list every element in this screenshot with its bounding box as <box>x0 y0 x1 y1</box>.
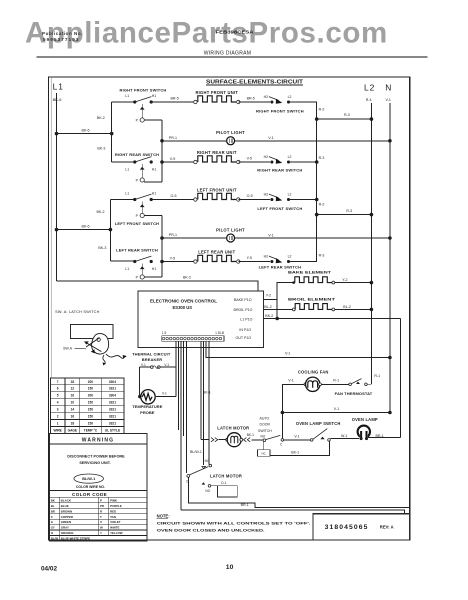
svg-text:N: N <box>385 83 391 93</box>
svg-text:14: 14 <box>71 408 75 412</box>
svg-text:BK-2: BK-2 <box>183 275 191 279</box>
wire latch C down and BR-1 out <box>188 477 409 507</box>
svg-text:VIOLET: VIOLET <box>110 520 121 524</box>
svg-text:DISCONNECT POWER BEFORE: DISCONNECT POWER BEFORE <box>67 454 125 458</box>
svg-text:AUTO: AUTO <box>260 416 270 420</box>
color code table <box>50 490 148 492</box>
svg-text:FAN THERMOSTAT: FAN THERMOSTAT <box>335 391 373 396</box>
latch switch curly lead <box>106 354 124 358</box>
svg-text:PURPLE: PURPLE <box>110 504 122 508</box>
svg-text:10: 10 <box>226 564 234 571</box>
svg-text:4: 4 <box>57 401 59 405</box>
svg-text:RIGHT FRONT UNIT: RIGHT FRONT UNIT <box>195 90 238 95</box>
wire strip drop 6 (NC lead) <box>202 341 204 465</box>
wire strip drop 7 (V-1 to N) <box>206 341 390 357</box>
svg-text:16: 16 <box>71 415 75 419</box>
svg-text:O-5: O-5 <box>247 194 253 198</box>
svg-text:1: 1 <box>57 421 59 425</box>
svg-text:PILOT LIGHT: PILOT LIGHT <box>216 227 245 232</box>
svg-text:V-1: V-1 <box>386 98 391 102</box>
temperature probe <box>138 395 142 399</box>
svg-text:BK-6: BK-6 <box>82 224 90 228</box>
svg-text:SW.A: SW.A <box>63 347 73 351</box>
svg-text:W: W <box>100 526 103 530</box>
svg-text:NO: NO <box>205 489 210 493</box>
wire bus right-switch column <box>111 102 113 162</box>
svg-text:T: T <box>100 515 102 519</box>
svg-text:THERMAL CIRCUIT: THERMAL CIRCUIT <box>132 351 171 356</box>
svg-text:5: 5 <box>57 394 59 398</box>
svg-text:BK-1: BK-1 <box>247 433 254 437</box>
svg-text:LEFT FRONT UNIT: LEFT FRONT UNIT <box>197 188 237 193</box>
svg-text:GREEN: GREEN <box>61 520 71 524</box>
svg-text:BREAKER: BREAKER <box>142 357 162 362</box>
svg-text:RIGHT REAR SWITCH: RIGHT REAR SWITCH <box>115 152 159 157</box>
wire vertical to L1 P1O wire <box>276 299 278 318</box>
wire strip drop 3b <box>178 341 180 430</box>
svg-text:R-3: R-3 <box>344 113 350 117</box>
wire unit to switch2 <box>238 261 270 263</box>
svg-text:REV: A: REV: A <box>380 524 394 529</box>
svg-text:L1: L1 <box>125 168 129 172</box>
svg-text:04/02: 04/02 <box>41 565 57 572</box>
svg-text:L2: L2 <box>288 255 292 259</box>
svg-text:3321: 3321 <box>109 401 116 405</box>
wire bus left-switch column <box>109 200 111 262</box>
svg-text:200: 200 <box>88 394 94 398</box>
svg-text:V-1: V-1 <box>285 352 290 356</box>
svg-text:R-3: R-3 <box>319 254 325 258</box>
wire strip drop 5 (BK-1 to latch motor) <box>200 341 202 439</box>
svg-text:TAN: TAN <box>110 515 116 519</box>
svg-text:YELLOW: YELLOW <box>110 531 123 535</box>
wire strip drop 3 <box>183 341 185 436</box>
svg-text:COPPER: COPPER <box>61 515 74 519</box>
svg-text:WHITE: WHITE <box>110 526 119 530</box>
svg-text:Y-2: Y-2 <box>266 294 271 298</box>
wire unit to switch2 <box>238 199 270 201</box>
part number box <box>313 514 409 540</box>
svg-text:SERVICING UNIT.: SERVICING UNIT. <box>79 461 110 465</box>
electronic oven control U1 (ES300) <box>138 291 264 348</box>
svg-text:V-5: V-5 <box>247 156 252 160</box>
svg-text:BL-2: BL-2 <box>343 305 351 309</box>
latch switch lower (C/NC/NO) <box>187 475 190 478</box>
svg-text:V-1: V-1 <box>162 391 167 395</box>
svg-text:IN P1O: IN P1O <box>239 328 251 332</box>
svg-text:150: 150 <box>88 401 94 405</box>
svg-text:16: 16 <box>71 394 75 398</box>
svg-text:LATCH MOTOR: LATCH MOTOR <box>210 473 242 478</box>
wire strip drop 2 (outer loop) <box>180 341 182 510</box>
svg-text:12: 12 <box>71 387 75 391</box>
svg-text:WIRE: WIRE <box>53 428 61 432</box>
svg-text:OVEN LAMP SWITCH: OVEN LAMP SWITCH <box>296 421 341 426</box>
svg-text:10: 10 <box>71 401 75 405</box>
svg-text:V: V <box>100 520 102 524</box>
svg-text:BL/W-1: BL/W-1 <box>190 450 202 454</box>
svg-text:H1: H1 <box>152 267 157 271</box>
wire unit to switch2 <box>238 161 270 163</box>
svg-text:BR-5: BR-5 <box>171 96 179 100</box>
svg-text:R-3: R-3 <box>319 156 325 160</box>
RIGHT FRONT UNIT element <box>194 100 197 103</box>
svg-text:L1: L1 <box>53 81 64 91</box>
svg-text:L1: L1 <box>125 191 129 195</box>
svg-text:P: P <box>100 498 102 502</box>
svg-text:NC: NC <box>205 459 210 463</box>
wire N bus <box>389 103 391 413</box>
svg-text:150: 150 <box>88 408 94 412</box>
terminal strip of EOC <box>162 336 224 341</box>
latch switch bracket art <box>70 325 113 339</box>
svg-text:BLACK: BLACK <box>61 498 72 502</box>
wire outer loop bottom <box>181 510 405 514</box>
svg-text:L2: L2 <box>288 193 292 197</box>
svg-text:3304: 3304 <box>109 380 116 384</box>
svg-text:ELECTRONIC OVEN CONTROL: ELECTRONIC OVEN CONTROL <box>150 299 217 304</box>
svg-text:L1 P1O: L1 P1O <box>240 318 252 322</box>
svg-text:R-4: R-4 <box>366 98 372 102</box>
svg-text:BL/W-1: BL/W-1 <box>82 477 95 481</box>
svg-text:V-9: V-9 <box>170 157 175 161</box>
wire V-1 to N <box>282 412 390 414</box>
wire strip drop 1 <box>175 341 177 367</box>
wire breaker right down <box>175 367 177 397</box>
svg-text:TEMPERATURE: TEMPERATURE <box>132 404 162 409</box>
svg-text:PILOT LIGHT: PILOT LIGHT <box>216 130 245 135</box>
LEFT FRONT UNIT element <box>194 198 197 201</box>
svg-text:R-1: R-1 <box>374 374 380 378</box>
svg-text:SWITCH: SWITCH <box>258 429 272 433</box>
svg-text:WARNING: WARNING <box>82 438 115 444</box>
svg-text:GAGE: GAGE <box>68 428 77 432</box>
svg-text:RIGHT REAR SWITCH: RIGHT REAR SWITCH <box>257 168 302 173</box>
svg-text:BLUE: BLUE <box>61 504 69 508</box>
svg-text:GRAY: GRAY <box>61 526 69 530</box>
svg-text:1 5: 1 5 <box>162 331 167 335</box>
svg-text:ES300 US: ES300 US <box>173 305 193 310</box>
svg-text:BK-1: BK-1 <box>203 390 211 394</box>
svg-text:OUT P1O: OUT P1O <box>235 336 251 340</box>
svg-text:PR-1: PR-1 <box>169 136 177 140</box>
svg-text:5995377193: 5995377193 <box>43 37 80 42</box>
wire gauge table <box>50 378 124 434</box>
svg-text:BK-2: BK-2 <box>265 314 273 318</box>
svg-text:150: 150 <box>88 421 94 425</box>
wire P bus upper <box>144 119 162 121</box>
wire strip drop 4 (to latch switch C) <box>186 341 188 473</box>
svg-text:LATCH MOTOR: LATCH MOTOR <box>217 426 249 431</box>
wire H1 to unit <box>151 199 195 201</box>
svg-text:BK-2: BK-2 <box>97 116 105 120</box>
LEFT REAR UNIT element <box>194 260 197 263</box>
svg-text:OVEN DOOR CLOSED AND UNLOCKED.: OVEN DOOR CLOSED AND UNLOCKED. <box>157 527 265 532</box>
wire H1 to unit <box>151 101 195 103</box>
svg-text:RIGHT FRONT SWITCH: RIGHT FRONT SWITCH <box>256 109 304 114</box>
svg-text:TEMP °C: TEMP °C <box>84 428 98 432</box>
main border <box>49 77 410 540</box>
wire P bus lower <box>144 215 162 217</box>
svg-text:7: 7 <box>57 380 59 384</box>
svg-text:LEFT FRONT SWITCH: LEFT FRONT SWITCH <box>115 221 159 226</box>
svg-text:O-5: O-5 <box>171 194 177 198</box>
svg-text:3321: 3321 <box>109 408 116 412</box>
svg-text:L1: L1 <box>125 267 129 271</box>
svg-text:R-1: R-1 <box>333 378 339 382</box>
svg-text:R-3: R-3 <box>346 209 352 213</box>
svg-text:WIRING DIAGRAM: WIRING DIAGRAM <box>204 51 252 57</box>
svg-text:H2: H2 <box>264 193 269 197</box>
svg-text:RIGHT REAR UNIT: RIGHT REAR UNIT <box>197 150 237 155</box>
svg-text:NOTE:: NOTE: <box>157 513 170 518</box>
svg-text:3321: 3321 <box>109 387 116 391</box>
svg-text:Y-5: Y-5 <box>247 256 252 260</box>
svg-text:Publication No.: Publication No. <box>42 31 83 36</box>
svg-text:BK-6: BK-6 <box>53 97 63 102</box>
svg-text:BR-5: BR-5 <box>247 96 255 100</box>
svg-text:GY: GY <box>51 526 55 530</box>
svg-text:PINK: PINK <box>110 498 118 502</box>
svg-text:BAKE ELEMENT: BAKE ELEMENT <box>288 270 332 275</box>
svg-text:FEB398CESA: FEB398CESA <box>216 30 255 35</box>
svg-text:LEFT REAR SWITCH: LEFT REAR SWITCH <box>116 248 158 253</box>
wire riser BR to oven lamp <box>400 319 402 438</box>
svg-text:L1: L1 <box>125 94 129 98</box>
door NC box <box>262 441 264 449</box>
RIGHT REAR UNIT element <box>194 160 197 163</box>
wire breaker left to probe <box>139 367 141 395</box>
header rule <box>37 56 428 58</box>
svg-text:6: 6 <box>57 387 59 391</box>
svg-text:18: 18 <box>71 380 75 384</box>
svg-text:BK-3: BK-3 <box>98 246 106 250</box>
svg-text:PROBE: PROBE <box>140 410 155 415</box>
svg-text:3321: 3321 <box>109 421 116 425</box>
wire L2 bus <box>370 103 372 384</box>
svg-text:H2: H2 <box>264 155 269 159</box>
svg-text:SW. A: LATCH SWITCH: SW. A: LATCH SWITCH <box>55 310 100 314</box>
svg-text:L2: L2 <box>288 155 292 159</box>
svg-text:RED: RED <box>110 509 116 513</box>
svg-text:V-1: V-1 <box>334 407 339 411</box>
svg-text:Y: Y <box>100 531 102 535</box>
wire switch2 to junction bus <box>289 102 317 119</box>
svg-text:18: 18 <box>71 421 75 425</box>
svg-text:BK-3: BK-3 <box>97 147 105 151</box>
svg-text:V-1: V-1 <box>164 363 169 367</box>
svg-text:OVEN LAMP: OVEN LAMP <box>352 417 378 422</box>
svg-text:NO: NO <box>261 434 266 438</box>
svg-text:V-1: V-1 <box>141 363 146 367</box>
svg-text:150: 150 <box>88 387 94 391</box>
svg-text:3304: 3304 <box>109 394 116 398</box>
svg-text:R-2: R-2 <box>319 108 325 112</box>
svg-text:H1: H1 <box>152 168 157 172</box>
svg-text:BL: BL <box>51 504 55 508</box>
svg-text:150: 150 <box>88 415 94 419</box>
wire strip drop 8 (NC riser) <box>208 341 210 464</box>
svg-text:318045065: 318045065 <box>325 524 369 531</box>
svg-text:H1: H1 <box>152 191 157 195</box>
svg-text:UL STYLE: UL STYLE <box>105 428 120 432</box>
svg-text:V-1: V-1 <box>268 233 273 237</box>
svg-text:DOOR: DOOR <box>260 423 271 427</box>
wire switch2 to bus <box>289 161 317 163</box>
svg-text:BK-6: BK-6 <box>82 128 90 132</box>
svg-text:RIGHT FRONT SWITCH: RIGHT FRONT SWITCH <box>120 88 167 93</box>
svg-text:COLOR CODE: COLOR CODE <box>72 492 107 497</box>
svg-text:BL-2: BL-2 <box>264 305 272 309</box>
svg-text:BK-1: BK-1 <box>291 450 299 454</box>
wire unit to switch2 <box>238 101 270 103</box>
svg-text:200: 200 <box>88 380 94 384</box>
svg-text:CIRCUIT SHOWN WITH ALL CONTROL: CIRCUIT SHOWN WITH ALL CONTROLS SET TO '… <box>157 521 311 526</box>
svg-text:Y-5: Y-5 <box>170 256 175 260</box>
svg-text:LEFT REAR UNIT: LEFT REAR UNIT <box>198 250 235 255</box>
svg-text:BROIL ELEMENT: BROIL ELEMENT <box>288 296 336 301</box>
svg-text:PR-1: PR-1 <box>169 233 177 237</box>
svg-text:BROWN: BROWN <box>61 509 72 513</box>
svg-text:V-1: V-1 <box>288 378 293 382</box>
svg-text:Y-2: Y-2 <box>342 278 347 282</box>
svg-text:BR-1: BR-1 <box>241 503 249 507</box>
svg-text:LEFT FRONT SWITCH: LEFT FRONT SWITCH <box>257 206 302 211</box>
wire L1 bus <box>56 93 58 281</box>
svg-text:3: 3 <box>57 408 59 412</box>
svg-text:V-1: V-1 <box>268 136 273 140</box>
svg-text:BLUE-WHITE STRIPE: BLUE-WHITE STRIPE <box>61 537 90 541</box>
svg-text:COLOR WIRE NO.: COLOR WIRE NO. <box>76 485 105 489</box>
wire switch2 to bus <box>289 215 317 262</box>
wire switch2 to bus <box>289 199 317 201</box>
svg-text:L2: L2 <box>288 95 292 99</box>
svg-text:H1: H1 <box>152 94 157 98</box>
svg-text:H2: H2 <box>264 255 269 259</box>
svg-text:3321: 3321 <box>109 415 116 419</box>
svg-text:BROIL P1O: BROIL P1O <box>234 308 253 312</box>
svg-text:2: 2 <box>57 415 59 419</box>
warning box <box>50 433 148 541</box>
svg-text:ORANGE: ORANGE <box>61 531 74 535</box>
svg-text:R-2: R-2 <box>319 203 325 207</box>
svg-text:COOLING FAN: COOLING FAN <box>298 370 329 375</box>
svg-text:L2: L2 <box>364 83 375 93</box>
svg-text:1 DLB: 1 DLB <box>215 331 224 335</box>
svg-text:BL/W: BL/W <box>51 537 59 541</box>
svg-text:D-1: D-1 <box>221 481 226 485</box>
svg-text:V-1: V-1 <box>294 435 299 439</box>
svg-text:BAKE P1O: BAKE P1O <box>234 298 252 302</box>
svg-text:W-1: W-1 <box>341 434 348 438</box>
svg-text:BK-2: BK-2 <box>97 210 105 214</box>
svg-text:H2: H2 <box>264 95 269 99</box>
